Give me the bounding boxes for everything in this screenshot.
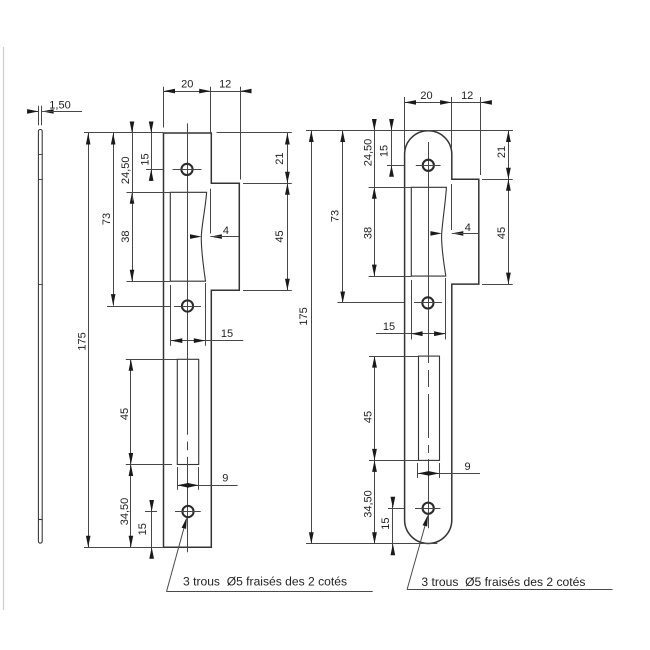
middle dim label 45 right	[274, 230, 286, 242]
middle plate outline	[164, 133, 240, 547]
right dim 9	[418, 471, 480, 476]
right cutout bottom extension	[369, 276, 412, 278]
svg-text:15: 15	[139, 153, 151, 165]
right note underline	[407, 589, 612, 591]
right dim label 15 width	[383, 321, 395, 333]
middle dim 4	[190, 234, 239, 239]
right dim 175	[309, 131, 314, 544]
right edge hidden extension	[451, 184, 453, 230]
middle note text	[183, 574, 347, 588]
right dim label 175	[298, 307, 310, 325]
svg-text:175: 175	[76, 332, 88, 350]
middle dim label 15 top	[139, 153, 151, 165]
middle dim 24,50 and 38	[130, 122, 135, 282]
right width ext lines	[412, 278, 446, 340]
middle bottom extension line	[84, 547, 164, 549]
middle leader line	[167, 517, 187, 591]
right dim 21 and 45	[506, 131, 511, 285]
middle dim 45 and 34,50	[129, 359, 134, 547]
middle dim 20 line and arrows	[164, 89, 252, 94]
middle dim label 9	[222, 473, 228, 485]
middle dim 15 top	[149, 122, 154, 182]
right dim 45 and 34,50	[372, 356, 377, 544]
right cutout top extension	[369, 187, 412, 189]
middle dim 21 and 45	[285, 133, 290, 290]
right plate hole B2	[422, 297, 433, 308]
svg-text:12: 12	[219, 79, 231, 91]
svg-text:45: 45	[274, 230, 286, 242]
svg-text:45: 45	[496, 227, 508, 239]
middle dim label 45	[119, 408, 131, 420]
dimension 1,50 arrows and line	[27, 109, 82, 114]
right dim label 73	[330, 210, 342, 222]
middle dim label 175	[76, 332, 88, 350]
middle dim 73	[111, 133, 116, 306]
middle dim label 4	[223, 225, 229, 237]
right bolt ext lines	[418, 463, 440, 478]
svg-text:3 trous Ø5 fraisés des 2 coté: 3 trous Ø5 fraisés des 2 cotés	[421, 575, 585, 589]
middle dim 175	[86, 133, 91, 547]
page edge line	[3, 47, 5, 610]
right top tangent extension line	[306, 130, 513, 132]
svg-text:9: 9	[222, 473, 228, 485]
hole A1 crosshair	[173, 169, 202, 171]
right dim label 20	[420, 90, 432, 102]
right leader line	[407, 515, 428, 590]
right hole B3 extension stub	[388, 508, 404, 510]
right lower cutout top extension	[369, 356, 419, 358]
right dim 15 bottom	[391, 497, 396, 556]
svg-text:34,50: 34,50	[363, 490, 375, 518]
middle dim label 38	[120, 230, 132, 242]
right plate latch cutout	[411, 187, 446, 276]
right dim label 12	[461, 90, 473, 102]
middle plate vertical centerline	[187, 123, 189, 552]
right dim label 45 stack	[496, 227, 508, 239]
hole A3 crosshair	[175, 511, 201, 513]
right dim label 4	[465, 222, 471, 234]
middle width ext lines	[171, 283, 206, 346]
side view tangent/lip tick marks	[38, 155, 43, 520]
right plate hole B1	[423, 160, 434, 171]
svg-text:15: 15	[379, 145, 391, 157]
middle lower cutout bottom extension	[126, 464, 172, 466]
right dim label 9	[465, 461, 471, 473]
right dim label 15 bottom	[380, 517, 392, 529]
svg-text:38: 38	[120, 230, 132, 242]
right dim 20 line and arrows	[405, 100, 492, 105]
middle cutout bottom extension	[127, 281, 171, 283]
right dim label 38	[362, 227, 374, 239]
svg-text:45: 45	[119, 408, 131, 420]
svg-text:24,50: 24,50	[362, 139, 374, 167]
middle dim 15 width	[171, 338, 243, 343]
right top dim extension lines	[405, 97, 481, 175]
right note text	[421, 575, 585, 589]
hole B1 crosshair	[416, 165, 441, 167]
svg-text:38: 38	[362, 227, 374, 239]
svg-text:3 trous Ø5 fraisés des 2 coté: 3 trous Ø5 fraisés des 2 cotés	[183, 574, 347, 588]
svg-text:21: 21	[274, 152, 286, 164]
middle dim label 15 width	[221, 328, 233, 340]
svg-text:15: 15	[380, 517, 392, 529]
right dim 15 width	[376, 331, 446, 336]
right dim 15 top	[389, 119, 394, 177]
svg-text:15: 15	[137, 523, 149, 535]
middle hole A2 extension line	[107, 306, 171, 308]
right lower cutout bottom extension	[369, 460, 418, 462]
middle top dim extension lines	[164, 87, 241, 180]
svg-text:4: 4	[465, 222, 471, 234]
hole A2 crosshair	[174, 306, 201, 308]
side view plate outline	[38, 130, 42, 544]
middle lip bottom extension	[243, 290, 292, 292]
right lip bottom extension	[482, 284, 513, 286]
middle dim label 21	[274, 152, 286, 164]
svg-text:73: 73	[330, 210, 342, 222]
hole B2 crosshair	[414, 302, 442, 304]
right plate hole B3	[423, 503, 434, 514]
middle dim label 34,50	[119, 498, 131, 526]
hole B3 crosshair	[415, 508, 440, 510]
middle top extension line	[84, 132, 292, 134]
middle plate hole A3	[182, 506, 193, 517]
svg-text:45: 45	[363, 411, 375, 423]
svg-text:24,50: 24,50	[120, 157, 132, 185]
svg-text:34,50: 34,50	[119, 498, 131, 526]
svg-text:20: 20	[420, 90, 432, 102]
middle dim 15 bottom	[149, 500, 154, 559]
right plate vertical centerline	[428, 142, 430, 528]
svg-text:15: 15	[383, 321, 395, 333]
right dim label 15 top	[379, 145, 391, 157]
svg-text:4: 4	[223, 225, 229, 237]
right dim 4	[430, 231, 478, 236]
middle dim label 20	[181, 79, 193, 91]
right bottom tangent extension line	[306, 543, 437, 545]
middle hole A1 extension line	[146, 169, 163, 171]
svg-text:1,50: 1,50	[49, 99, 70, 111]
right dim 24,50 and 38	[372, 119, 377, 276]
middle lower cutout top extension	[126, 359, 178, 361]
middle dim label 73	[101, 213, 113, 225]
right plate bolt cutout	[419, 356, 440, 460]
middle hole A3 extension stub	[145, 511, 157, 513]
svg-text:20: 20	[181, 79, 193, 91]
svg-text:73: 73	[101, 213, 113, 225]
dimension 1,50 extension lines	[39, 106, 42, 125]
svg-text:21: 21	[496, 146, 508, 158]
svg-text:9: 9	[465, 461, 471, 473]
right dim label 34,50	[363, 490, 375, 518]
right dim label 21	[496, 146, 508, 158]
middle dim label 15 bottom	[137, 523, 149, 535]
middle dim label 24,50	[120, 157, 132, 185]
middle note underline	[166, 591, 373, 593]
svg-text:15: 15	[221, 328, 233, 340]
right dim 73	[340, 131, 345, 304]
right lip top extension	[482, 179, 513, 181]
middle dim 9	[177, 483, 237, 488]
svg-text:12: 12	[461, 90, 473, 102]
right plate outline	[405, 131, 479, 544]
middle dim label 12	[219, 79, 231, 91]
middle lip top extension	[243, 183, 292, 185]
middle plate bolt cutout	[177, 359, 198, 464]
dimension label 1,50	[49, 99, 70, 111]
middle plate hole A1	[181, 164, 192, 175]
middle plate hole A2	[182, 300, 193, 311]
right hole B1 extension line	[387, 165, 404, 167]
right hole B2 extension line	[338, 302, 405, 304]
right dim label 24,50	[362, 139, 374, 167]
middle bolt ext lines	[178, 467, 199, 490]
right dim label 45	[363, 411, 375, 423]
svg-text:175: 175	[298, 307, 310, 325]
middle edge hidden extension	[210, 189, 212, 234]
middle plate latch cutout	[170, 192, 206, 281]
middle cutout top extension	[127, 192, 171, 194]
